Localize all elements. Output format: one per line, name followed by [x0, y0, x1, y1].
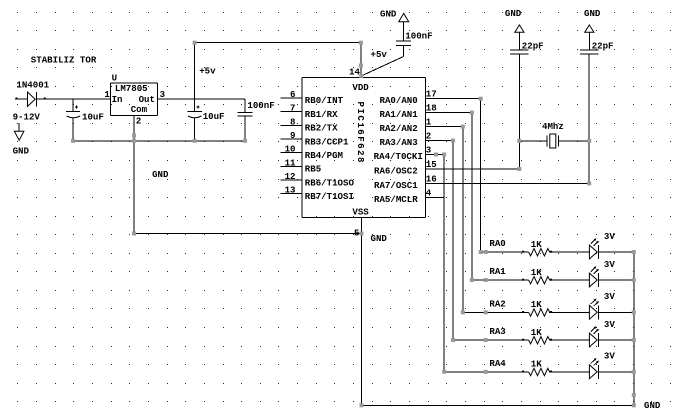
svg-text:18: 18	[426, 103, 437, 114]
svg-text:LM7805: LM7805	[115, 83, 148, 94]
svg-text:13: 13	[285, 185, 296, 196]
svg-text:RB1/RX: RB1/RX	[305, 109, 338, 120]
svg-text:15: 15	[426, 159, 437, 170]
svg-text:RB7/T1OSI: RB7/T1OSI	[305, 191, 354, 202]
svg-text:RA4/T0CKI: RA4/T0CKI	[374, 151, 423, 162]
svg-text:RA2/AN2: RA2/AN2	[379, 123, 417, 134]
svg-text:1: 1	[104, 89, 110, 100]
svg-text:9-12V: 9-12V	[13, 111, 41, 122]
svg-text:+5v: +5v	[371, 49, 388, 60]
svg-text:RA0: RA0	[489, 238, 505, 249]
svg-text:1K: 1K	[531, 239, 542, 250]
svg-text:RA1/AN1: RA1/AN1	[379, 109, 418, 120]
svg-text:22pF: 22pF	[522, 40, 544, 51]
svg-text:GND: GND	[371, 233, 388, 244]
svg-text:RA4: RA4	[489, 358, 506, 369]
svg-text:RB2/TX: RB2/TX	[305, 123, 338, 134]
svg-text:3V: 3V	[604, 319, 615, 330]
svg-text:GND: GND	[152, 169, 169, 180]
svg-text:1: 1	[426, 117, 432, 128]
svg-text:RB4/PGM: RB4/PGM	[305, 150, 344, 161]
svg-text:16: 16	[426, 173, 437, 184]
svg-text:Com: Com	[131, 104, 148, 115]
svg-text:VSS: VSS	[352, 206, 369, 217]
svg-text:RA7/OSC1: RA7/OSC1	[374, 180, 418, 191]
svg-text:3V: 3V	[604, 259, 615, 270]
svg-text:RB0/INT: RB0/INT	[305, 95, 344, 106]
svg-text:4: 4	[426, 187, 432, 198]
svg-text:GND: GND	[380, 9, 397, 20]
svg-text:4Mhz: 4Mhz	[542, 121, 564, 132]
svg-text:U: U	[112, 73, 117, 84]
svg-text:5: 5	[354, 228, 359, 239]
svg-text:3V: 3V	[604, 351, 615, 362]
svg-text:10uF: 10uF	[203, 111, 225, 122]
svg-text:2: 2	[426, 131, 431, 142]
svg-text:12: 12	[285, 171, 296, 182]
svg-text:RA5/MCLR: RA5/MCLR	[374, 194, 418, 205]
svg-text:RA6/OSC2: RA6/OSC2	[374, 165, 418, 176]
svg-text:RB6/T1OSO: RB6/T1OSO	[305, 177, 355, 188]
svg-text:10uF: 10uF	[82, 111, 104, 122]
svg-text:1K: 1K	[531, 359, 542, 370]
svg-text:+5v: +5v	[199, 66, 216, 77]
svg-text:3: 3	[426, 145, 431, 156]
svg-text:RA2: RA2	[489, 298, 505, 309]
svg-text:10: 10	[285, 144, 296, 155]
svg-text:2: 2	[136, 115, 141, 126]
svg-text:1K: 1K	[531, 327, 542, 338]
svg-text:RA3/AN3: RA3/AN3	[379, 137, 417, 148]
svg-text:7: 7	[290, 103, 295, 114]
svg-text:GND: GND	[644, 400, 661, 411]
svg-text:17: 17	[426, 89, 437, 100]
svg-text:RB5: RB5	[305, 164, 321, 175]
svg-text:RA0/AN0: RA0/AN0	[379, 95, 417, 106]
svg-text:RA3: RA3	[489, 326, 505, 337]
svg-text:VDD: VDD	[352, 82, 369, 93]
svg-text:22pF: 22pF	[592, 40, 614, 51]
svg-text:100nF: 100nF	[247, 100, 274, 111]
svg-text:3V: 3V	[604, 291, 615, 302]
svg-text:In: In	[112, 94, 123, 105]
svg-text:GND: GND	[505, 8, 522, 19]
svg-text:3: 3	[160, 89, 165, 100]
svg-text:9: 9	[290, 130, 295, 141]
svg-text:8: 8	[290, 116, 295, 127]
svg-text:PIC16F628: PIC16F628	[355, 102, 366, 163]
svg-text:11: 11	[285, 157, 296, 168]
svg-text:14: 14	[349, 66, 360, 77]
svg-text:6: 6	[290, 89, 295, 100]
svg-text:STABILIZ TOR: STABILIZ TOR	[31, 55, 97, 66]
svg-text:3V: 3V	[604, 231, 615, 242]
svg-text:GND: GND	[584, 8, 601, 19]
svg-text:100nF: 100nF	[405, 31, 432, 42]
svg-text:RA1: RA1	[489, 266, 506, 277]
svg-text:RB3/CCP1: RB3/CCP1	[305, 136, 349, 147]
svg-text:GND: GND	[13, 146, 30, 157]
svg-text:1N4001: 1N4001	[16, 79, 49, 90]
svg-text:1K: 1K	[531, 267, 542, 278]
svg-text:1K: 1K	[531, 299, 542, 310]
